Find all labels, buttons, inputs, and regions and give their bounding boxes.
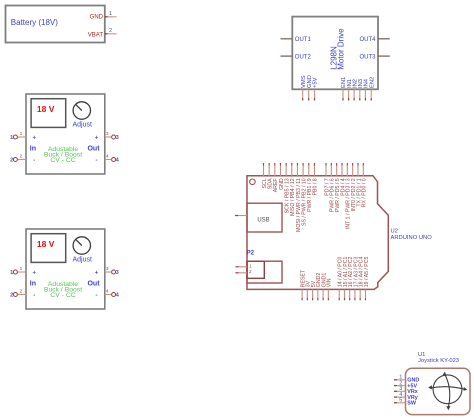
L298N pin OUT1 <box>281 37 312 43</box>
arduino pin 6 <box>330 163 336 212</box>
L298N pin GND <box>307 75 313 100</box>
buck/boost text Adustable Buck / Boost CV - CC <box>44 146 82 164</box>
L298N label <box>329 28 345 70</box>
svg-text:18 V: 18 V <box>37 104 55 114</box>
arduino pin A3 <box>353 257 359 301</box>
svg-text:2: 2 <box>20 289 23 295</box>
L298N pin OUT4 <box>359 37 389 43</box>
arduino pin 9 <box>307 163 313 212</box>
buck/boost display 18 V <box>31 99 66 128</box>
svg-text:2: 2 <box>109 28 112 34</box>
svg-text:Out: Out <box>87 146 100 153</box>
svg-text:Adjust: Adjust <box>72 256 92 263</box>
arduino pin AREF <box>273 163 279 192</box>
svg-text:Motor Drive: Motor Drive <box>336 28 345 70</box>
wire arduino USB shield <box>235 215 247 217</box>
svg-text:EN2: EN2 <box>369 77 375 88</box>
svg-text:1: 1 <box>10 270 13 276</box>
svg-text:OUT4: OUT4 <box>359 37 376 43</box>
arduino pin 4 <box>340 163 346 196</box>
svg-text:ARDUINO UNO: ARDUINO UNO <box>391 235 433 241</box>
buck/boost pin 4 Out- <box>96 289 120 299</box>
joystick U1 label <box>418 352 459 364</box>
svg-text:4: 4 <box>106 289 109 295</box>
svg-text:1: 1 <box>20 131 23 137</box>
buck/boost converter box <box>26 94 105 174</box>
arduino U2 board outline <box>247 176 388 290</box>
motor driver U3 L298N box <box>292 17 378 90</box>
buck/boost pin 2 In- <box>10 154 35 164</box>
arduino pin A4 <box>359 257 365 301</box>
buck/boost pin 1 In+ <box>10 131 36 141</box>
arduino pin 5V <box>311 280 317 300</box>
arduino pin 5 <box>335 163 341 212</box>
L298N pin +5V <box>313 77 319 100</box>
svg-text:+: + <box>95 271 99 277</box>
battery BT1 (18V) <box>6 6 105 43</box>
arduino pin 2 <box>351 163 357 211</box>
svg-text:Joystick KY-023: Joystick KY-023 <box>418 358 459 364</box>
arduino power connector P2 <box>247 250 283 284</box>
arduino pin 13 <box>284 163 290 213</box>
joystick U1 KY-023 box <box>406 368 471 414</box>
svg-text:2: 2 <box>20 154 23 160</box>
arduino U2 label <box>391 229 433 241</box>
joystick pin 2 +5V <box>394 380 417 389</box>
svg-text:P2: P2 <box>247 250 255 257</box>
arduino pin GND2 <box>316 273 322 301</box>
svg-text:+: + <box>33 271 37 277</box>
wire battery pin 2 <box>105 28 117 34</box>
wire battery pin 1 <box>105 11 117 17</box>
buck/boost label In <box>30 281 36 288</box>
L298N pin IN3 <box>358 79 364 101</box>
buck/boost adjust knob <box>72 237 92 263</box>
svg-text:-: - <box>96 293 98 299</box>
joystick symbol <box>428 372 467 411</box>
svg-text:OUT2: OUT2 <box>295 54 312 60</box>
svg-text:CV - CC: CV - CC <box>50 157 75 164</box>
svg-text:-: - <box>96 158 98 164</box>
buck/boost pin 3 Out+ <box>95 131 119 141</box>
buck/boost pin 2 In- <box>10 289 35 299</box>
svg-text:4: 4 <box>116 158 120 164</box>
buck/boost pin 3 Out+ <box>95 266 119 276</box>
svg-text:5: 5 <box>399 398 402 404</box>
L298N pin OUT3 <box>359 54 389 60</box>
svg-text:2: 2 <box>10 158 13 164</box>
L298N pin IN2 <box>352 79 358 101</box>
L298N pin EN1 <box>341 77 347 101</box>
joystick pin 4 VRy <box>394 392 418 401</box>
arduino pin SCL <box>262 163 268 188</box>
buck/boost label In <box>30 146 36 153</box>
arduino USB connector <box>247 203 282 232</box>
buck/boost converter box <box>26 229 105 309</box>
svg-text:In: In <box>30 281 36 288</box>
arduino pin 8 <box>313 163 319 195</box>
arduino pin 3 <box>346 163 352 229</box>
joystick pin 3 VRx <box>394 386 418 395</box>
svg-text:Battery (18V): Battery (18V) <box>11 18 58 27</box>
arduino mounting hole <box>250 179 256 185</box>
arduino pin A5 <box>364 257 370 301</box>
svg-text:USB: USB <box>257 217 269 223</box>
svg-text:VIN: VIN <box>327 278 333 287</box>
svg-text:3: 3 <box>106 131 109 137</box>
buck/boost pin 1 In+ <box>10 266 36 276</box>
battery pin 1 GND <box>90 15 104 21</box>
buck/boost display 18 V <box>31 234 66 263</box>
svg-text:2: 2 <box>249 269 252 275</box>
svg-text:Adjust: Adjust <box>72 121 92 128</box>
svg-text:OUT3: OUT3 <box>359 54 376 60</box>
svg-text:3: 3 <box>116 270 119 276</box>
svg-text:CV - CC: CV - CC <box>50 292 75 299</box>
arduino pin SDA <box>267 163 273 189</box>
svg-text:+5V: +5V <box>313 77 319 88</box>
svg-text:In: In <box>30 146 36 153</box>
arduino pin 12 <box>290 163 296 216</box>
buck/boost adjust knob <box>72 102 92 129</box>
L298N pin OUT2 <box>281 54 312 60</box>
svg-text:1: 1 <box>109 11 112 17</box>
L298N pin EN2 <box>369 77 375 101</box>
svg-text:4: 4 <box>116 293 120 299</box>
buck/boost pin 4 Out- <box>96 154 120 164</box>
svg-text:+: + <box>95 136 99 142</box>
arduino pin VIN <box>327 278 333 300</box>
arduino pin 7 <box>324 163 330 196</box>
svg-text:3: 3 <box>116 135 119 141</box>
svg-text:GND: GND <box>90 15 104 21</box>
svg-text:Out: Out <box>87 281 100 288</box>
svg-text:-: - <box>33 293 35 299</box>
svg-text:2: 2 <box>10 293 13 299</box>
arduino pin 0 <box>362 163 368 207</box>
arduino pin 1 <box>356 163 362 207</box>
arduino pin A2 <box>348 257 354 301</box>
svg-text:4: 4 <box>106 154 109 160</box>
buck/boost label Out <box>87 146 100 153</box>
buck/boost text Adustable Buck / Boost CV - CC <box>44 281 82 299</box>
L298N pin IN1 <box>347 79 353 101</box>
svg-text:19 / A5 / PC5: 19 / A5 / PC5 <box>364 257 370 288</box>
svg-text:+: + <box>33 136 37 142</box>
arduino pin 11 <box>296 163 302 232</box>
arduino pin A0 <box>338 257 344 301</box>
svg-text:18 V: 18 V <box>37 239 55 249</box>
svg-text:OUT1: OUT1 <box>295 37 312 43</box>
L298N pin IN4 <box>364 78 370 100</box>
battery pin 2 VBAT <box>88 33 104 39</box>
arduino pin GND <box>279 163 285 190</box>
wire arduino P2 pin 2 <box>236 272 248 274</box>
svg-text:-: - <box>33 158 35 164</box>
wire arduino P2 pin 1 <box>236 266 248 268</box>
svg-text:SW: SW <box>407 401 417 407</box>
arduino pin 3V <box>306 280 312 300</box>
L298N pin VMS <box>301 75 307 100</box>
joystick pin 1 GND <box>394 375 419 384</box>
svg-text:U2: U2 <box>391 229 398 235</box>
svg-text:VBAT: VBAT <box>88 33 104 39</box>
svg-text:1: 1 <box>20 266 23 272</box>
svg-text:3: 3 <box>106 266 109 272</box>
joystick pin 5 SW <box>394 398 417 407</box>
svg-text:RX / PD0 / 0: RX / PD0 / 0 <box>362 178 368 207</box>
arduino pin 10 <box>301 163 307 226</box>
arduino pin A1 <box>343 257 349 301</box>
svg-text:PB0 / 8: PB0 / 8 <box>313 178 319 195</box>
svg-text:1: 1 <box>249 263 252 269</box>
arduino pin GND1 <box>321 273 327 301</box>
svg-text:1: 1 <box>10 135 13 141</box>
arduino pin RESET <box>300 269 306 300</box>
buck/boost label Out <box>87 281 100 288</box>
